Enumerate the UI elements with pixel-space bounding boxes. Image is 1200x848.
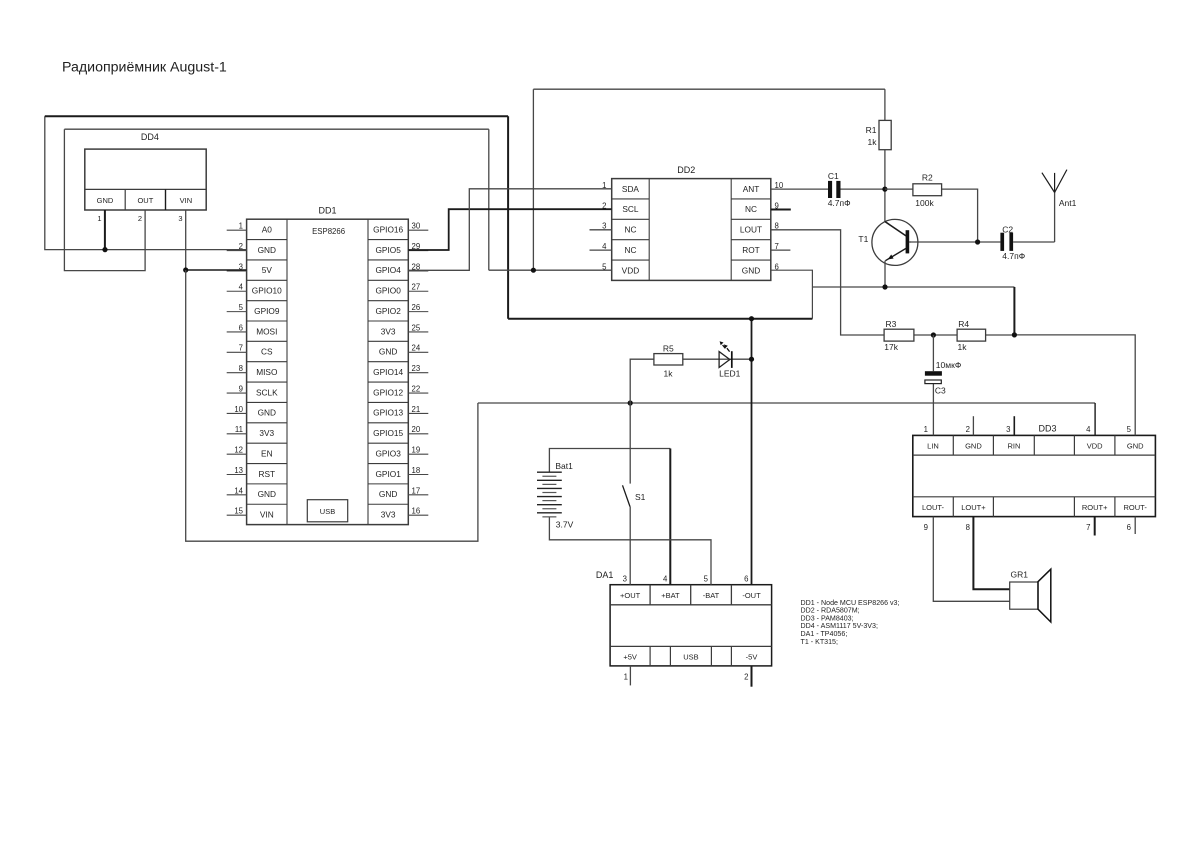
DD1 pin 30 (GPIO16) stub: [408, 229, 428, 231]
svg-text:25: 25: [412, 323, 421, 332]
DA1 pin 2 stub: [751, 666, 753, 687]
svg-text:T1: T1: [858, 234, 868, 244]
DD1 pin 10 (GND) stub: [227, 412, 247, 414]
microcontroller DD1 (NodeMCU ESP8266): [227, 206, 429, 525]
svg-text:DA1 - TP4056;: DA1 - TP4056;: [801, 630, 848, 638]
svg-text:+5V: +5V: [623, 652, 637, 661]
wire: R4 right to GND drop junction: [986, 334, 1015, 336]
svg-text:CS: CS: [261, 347, 273, 357]
svg-text:+OUT: +OUT: [620, 591, 641, 600]
svg-text:5: 5: [1127, 425, 1132, 434]
resistor R3 17k: [884, 319, 914, 352]
regulator DD4 (ASM1117): [85, 132, 206, 223]
svg-text:GPIO4: GPIO4: [375, 265, 401, 275]
junction R2 / base wire: [975, 239, 980, 244]
svg-text:USB: USB: [320, 507, 335, 516]
wire GND: vertical drop to R4 right: [1013, 287, 1015, 335]
svg-text:17k: 17k: [884, 342, 898, 352]
wire 5V: to DD1 pin3: [186, 269, 247, 271]
DD1 pin 15 (VIN) stub: [227, 514, 247, 516]
wire: GND y=318.7 down to DA1 -OUT pin6: [751, 319, 753, 585]
svg-text:4.7пФ: 4.7пФ: [828, 198, 851, 208]
wire: DD3 pin9 LOUT- to GR1: [933, 517, 1009, 602]
svg-text:3: 3: [623, 575, 627, 584]
DD1 pin 19 (GPIO3) stub: [408, 453, 428, 455]
svg-text:DD4 - ASM1117 5V-3V3;: DD4 - ASM1117 5V-3V3;: [801, 622, 878, 630]
svg-text:Ant1: Ant1: [1059, 198, 1077, 208]
DD1 USB connector box: [307, 500, 347, 522]
DD2 pin 7 ROT stub: [771, 249, 791, 251]
wire: S1 bottom to DA1 +OUT pin3: [629, 507, 631, 585]
svg-text:MISO: MISO: [256, 367, 278, 377]
svg-text:27: 27: [412, 283, 421, 292]
wire GND: DD2 pin6 to corner and down: [771, 270, 813, 319]
svg-text:22: 22: [412, 384, 421, 393]
svg-text:VDD: VDD: [622, 265, 640, 275]
wire GND: vertical at x=508: [507, 116, 509, 318]
svg-text:GND: GND: [258, 489, 276, 499]
svg-text:DD2: DD2: [677, 165, 695, 175]
DD1 pin 13 (RST) stub: [227, 474, 247, 476]
DD1 pin 4 (GPIO10) stub: [227, 290, 247, 292]
svg-text:GND: GND: [379, 347, 397, 357]
svg-text:2: 2: [744, 673, 748, 682]
svg-text:5: 5: [704, 575, 709, 584]
svg-text:GND: GND: [379, 489, 397, 499]
svg-text:3.7V: 3.7V: [556, 520, 574, 530]
svg-text:NC: NC: [624, 245, 636, 255]
svg-text:GPIO10: GPIO10: [252, 286, 282, 296]
wire SCL: DD1 GPIO5 to DD2 SCL: [408, 209, 611, 250]
DD2 pin 4 NC stub: [590, 249, 612, 251]
svg-text:1: 1: [624, 673, 628, 682]
svg-text:DD3 - PAM8403;: DD3 - PAM8403;: [801, 614, 854, 622]
svg-text:GPIO0: GPIO0: [375, 286, 401, 296]
svg-text:GND: GND: [1127, 441, 1144, 450]
antenna Ant1: [1042, 170, 1077, 208]
svg-text:T1 - KT315;: T1 - KT315;: [801, 638, 838, 646]
svg-text:Радиоприёмник August-1: Радиоприёмник August-1: [62, 59, 227, 75]
DD2 pin 9 NC stub: [771, 208, 791, 210]
svg-text:6: 6: [1127, 523, 1131, 532]
wire 3V3: inner top horizontal: [64, 128, 488, 130]
svg-text:DD1: DD1: [318, 206, 336, 216]
svg-text:OUT: OUT: [137, 196, 153, 205]
wire 5V: down into DD3 pin4: [1094, 403, 1096, 435]
svg-text:DD1 - Node MCU ESP8266 v3;: DD1 - Node MCU ESP8266 v3;: [801, 599, 900, 607]
junction R4 right / GND drop: [1012, 332, 1017, 337]
svg-text:VDD: VDD: [1087, 441, 1103, 450]
DD1 pin 9 (SCLK) stub: [227, 392, 247, 394]
svg-text:7: 7: [1086, 523, 1090, 532]
wire: Bat1 plus up and right: [549, 449, 670, 473]
svg-text:RST: RST: [258, 469, 275, 479]
DD1 pin 14 (GND) stub: [227, 494, 247, 496]
wire GND: outer top horizontal: [45, 115, 508, 117]
svg-text:10мкФ: 10мкФ: [936, 360, 961, 370]
wire 3V3: vertical at x=488.8: [488, 129, 490, 270]
svg-text:A0: A0: [262, 224, 273, 234]
svg-text:1: 1: [924, 425, 928, 434]
svg-text:ROUT+: ROUT+: [1082, 503, 1108, 512]
svg-text:ANT: ANT: [743, 184, 760, 194]
svg-text:GPIO1: GPIO1: [375, 469, 401, 479]
wire 5V: long horizontal y=403 to DD3 VDD: [478, 402, 1095, 404]
svg-text:GND: GND: [965, 441, 982, 450]
svg-text:GND: GND: [258, 245, 276, 255]
DD1 pin 29 (GPIO5) stub: [408, 250, 428, 252]
DD1 pin 1 (A0) stub: [227, 229, 247, 231]
svg-text:4.7пФ: 4.7пФ: [1002, 251, 1025, 261]
wire: R1 bottom to T1 collector: [884, 150, 886, 222]
charger DA1 (TP4056): [596, 570, 772, 682]
DD3 pin 6 stub: [1134, 517, 1136, 534]
svg-text:1k: 1k: [664, 368, 674, 378]
svg-text:NC: NC: [745, 204, 757, 214]
svg-text:3: 3: [178, 214, 182, 223]
svg-text:ESP8266: ESP8266: [312, 227, 345, 236]
svg-text:GPIO2: GPIO2: [375, 306, 401, 316]
svg-text:GPIO15: GPIO15: [373, 428, 403, 438]
svg-text:GR1: GR1: [1011, 569, 1029, 579]
svg-text:VIN: VIN: [260, 510, 274, 520]
wire: C2 right to antenna drop: [1013, 241, 1055, 243]
svg-text:17: 17: [412, 486, 421, 495]
svg-text:2: 2: [966, 425, 970, 434]
svg-text:-5V: -5V: [746, 652, 758, 661]
svg-text:5: 5: [239, 303, 244, 312]
svg-text:DD2 - RDA5807M;: DD2 - RDA5807M;: [801, 607, 860, 615]
component list text: [801, 599, 900, 646]
wire: R2 right then down to base rail: [942, 189, 978, 242]
radio IC DD2 (RDA5807M): [590, 165, 791, 280]
svg-text:4: 4: [663, 575, 668, 584]
wire GND: DD4 pin1 stub down: [104, 210, 106, 250]
capacitor C3 10uF electrolytic: [925, 360, 961, 395]
DD1 pin 6 (MOSI) stub: [227, 331, 247, 333]
svg-text:+BAT: +BAT: [661, 591, 680, 600]
capacitor C2 4.7pF: [1000, 224, 1025, 260]
svg-text:GPIO13: GPIO13: [373, 408, 403, 418]
junction DD4 GND / GND rail: [102, 247, 107, 252]
svg-text:Bat1: Bat1: [555, 461, 573, 471]
svg-text:1k: 1k: [958, 342, 968, 352]
svg-text:14: 14: [234, 486, 243, 495]
svg-text:23: 23: [412, 364, 421, 373]
svg-text:11: 11: [235, 425, 243, 434]
svg-text:3V3: 3V3: [259, 428, 274, 438]
DD1 pin 12 (EN) stub: [227, 453, 247, 455]
svg-text:1k: 1k: [868, 137, 878, 147]
svg-text:C1: C1: [828, 171, 839, 181]
svg-text:9: 9: [239, 384, 243, 393]
DD1 pin 20 (GPIO15) stub: [408, 433, 428, 435]
svg-text:19: 19: [412, 446, 421, 455]
svg-text:8: 8: [239, 364, 243, 373]
svg-text:6: 6: [744, 575, 748, 584]
wire: down to DA1 +BAT pin4: [669, 449, 671, 585]
junction T1 emitter / GND rail: [882, 284, 887, 289]
DD1 pin 28 (GPIO4) stub: [408, 270, 428, 272]
DD1 pin 21 (GPIO13) stub: [408, 412, 428, 414]
wire: C3 bottom lead to DD3 pin1: [932, 384, 934, 436]
resistor R5 1k: [654, 344, 683, 379]
svg-text:9: 9: [924, 523, 928, 532]
resistor R4 1k: [957, 319, 986, 352]
svg-text:10: 10: [234, 405, 243, 414]
capacitor C1 4.7pF: [828, 171, 851, 208]
wire 3V3: DD4 OUT pin down-left-up: [64, 129, 145, 270]
resistor R1 1k: [866, 120, 892, 149]
svg-text:13: 13: [234, 466, 243, 475]
DD1 pin 18 (GPIO1) stub: [408, 474, 428, 476]
svg-text:LED1: LED1: [719, 369, 741, 379]
wire: 5V junction down to S1: [629, 403, 631, 484]
audio amplifier DD3 (PAM8403): [913, 423, 1156, 532]
svg-text:24: 24: [412, 344, 421, 353]
svg-text:3: 3: [1006, 425, 1010, 434]
wire 3V3: top horizontal y=89.2 to R1: [533, 88, 885, 90]
wire GND: R4 right to DD3 pin5: [1014, 335, 1135, 436]
wire 3V3: down to R1 top: [884, 89, 886, 120]
wire: Bat1 minus to DA1 -BAT pin5: [549, 517, 711, 585]
DD1 pin 11 (3V3) stub: [227, 433, 247, 435]
svg-text:S1: S1: [635, 492, 646, 502]
DD1 pin 26 (GPIO2) stub: [408, 311, 428, 313]
svg-text:SCLK: SCLK: [256, 387, 278, 397]
wire: R5 right to LED1 anode: [683, 358, 719, 360]
svg-text:SDA: SDA: [622, 184, 640, 194]
svg-text:7: 7: [239, 344, 243, 353]
junction DD4 VIN / DD1 5V: [183, 267, 188, 272]
svg-text:-BAT: -BAT: [703, 591, 720, 600]
wire: DD3 pin8 LOUT+ to GR1: [973, 517, 1009, 590]
DD1 pin 17 (GND) stub: [408, 494, 428, 496]
svg-text:GPIO3: GPIO3: [375, 448, 401, 458]
wire: antenna vertical: [1054, 193, 1056, 243]
svg-text:R5: R5: [663, 344, 674, 354]
svg-text:5V: 5V: [262, 265, 273, 275]
wire: T1 base to C2 left: [909, 241, 1000, 243]
junction R1 / C1 / R2 node: [882, 187, 887, 192]
svg-text:LIN: LIN: [927, 441, 939, 450]
svg-text:4: 4: [239, 283, 244, 292]
svg-text:DA1: DA1: [596, 570, 614, 580]
svg-text:NC: NC: [624, 225, 636, 235]
wire 5V: loop around DD1 left-bottom-right: [186, 270, 478, 541]
DD1 pin 27 (GPIO0) stub: [408, 290, 428, 292]
wire: LED1 cathode to -OUT drop: [732, 358, 752, 360]
svg-text:20: 20: [412, 425, 421, 434]
svg-text:26: 26: [412, 303, 421, 312]
svg-text:16: 16: [412, 507, 421, 516]
junction 3V3 branch / VDD wire: [531, 268, 536, 273]
svg-text:R4: R4: [958, 319, 969, 329]
svg-text:GND: GND: [258, 408, 276, 418]
speaker GR1: [1010, 569, 1051, 622]
transistor T1 (KT315): [858, 219, 918, 287]
svg-text:6: 6: [239, 323, 243, 332]
svg-text:GND: GND: [97, 196, 114, 205]
DD3 pin 2 stub: [972, 416, 974, 435]
DD1 pin 23 (GPIO14) stub: [408, 372, 428, 374]
DD1 pin 22 (GPIO12) stub: [408, 392, 428, 394]
junction GND rail / -OUT drop: [749, 316, 754, 321]
wire: R5 left corner down to 5V junction: [630, 359, 654, 403]
svg-text:1: 1: [97, 214, 101, 223]
DD3 pin 3 stub: [1013, 416, 1015, 435]
wire 5V: DD4 VIN pin down: [185, 210, 187, 270]
DD1 pin 25 (3V3) stub: [408, 331, 428, 333]
wire 3V3: to DD2 VDD pin5: [489, 269, 612, 271]
svg-text:3V3: 3V3: [381, 326, 396, 336]
svg-text:MOSI: MOSI: [256, 326, 277, 336]
junction LED1 cathode / -OUT drop: [749, 357, 754, 362]
svg-text:DD3: DD3: [1038, 423, 1056, 433]
DD1 pin 3 (5V) stub: [227, 270, 247, 272]
wire GND: horizontal y=318.7 to DD2 GND drop: [508, 318, 812, 320]
svg-text:SCL: SCL: [622, 204, 639, 214]
wire LOUT: DD2 pin8 to R3: [771, 230, 884, 335]
LED LED1: [719, 341, 741, 378]
svg-text:RIN: RIN: [1007, 441, 1020, 450]
DD1 pin 16 (3V3) stub: [408, 514, 428, 516]
DD1 pin 2 (GND) stub: [227, 250, 247, 252]
svg-text:GPIO12: GPIO12: [373, 387, 403, 397]
svg-text:R3: R3: [885, 319, 896, 329]
wire ANT: DD2 pin10 to C1: [771, 188, 828, 190]
svg-text:USB: USB: [683, 652, 698, 661]
switch S1: [623, 485, 646, 506]
DD2 pin 3 NC stub: [590, 229, 612, 231]
svg-text:DD4: DD4: [141, 132, 159, 142]
svg-text:C2: C2: [1002, 224, 1013, 234]
svg-text:ROUT-: ROUT-: [1124, 503, 1148, 512]
wire: C1 right to R1 bottom junction: [841, 188, 885, 190]
wire: junction to R2 left: [885, 188, 913, 190]
svg-text:GPIO14: GPIO14: [373, 367, 403, 377]
wire GND: DD1 pin2 left to outer loop corner: [45, 116, 247, 249]
svg-text:-OUT: -OUT: [742, 591, 761, 600]
DD1 pin 8 (MISO) stub: [227, 372, 247, 374]
svg-text:18: 18: [412, 466, 421, 475]
DD1 pin 7 (CS) stub: [227, 351, 247, 353]
junction R3 / R4 / C3 node: [931, 332, 936, 337]
svg-text:C3: C3: [935, 386, 946, 396]
svg-text:GPIO5: GPIO5: [375, 245, 401, 255]
svg-text:GPIO16: GPIO16: [373, 224, 403, 234]
svg-text:EN: EN: [261, 448, 273, 458]
svg-text:LOUT-: LOUT-: [922, 503, 945, 512]
svg-text:4: 4: [1086, 425, 1091, 434]
junction 5V rail / S1 branch: [628, 400, 633, 405]
svg-text:1: 1: [239, 222, 243, 231]
svg-text:2: 2: [138, 214, 142, 223]
wire: C3 top lead: [932, 335, 934, 371]
wire GND: horizontal y=287 emitter rail: [812, 286, 1014, 288]
svg-text:3V3: 3V3: [381, 510, 396, 520]
svg-text:LOUT: LOUT: [740, 225, 762, 235]
svg-text:30: 30: [412, 222, 421, 231]
svg-text:GND: GND: [742, 265, 760, 275]
DD1 pin 24 (GND) stub: [408, 351, 428, 353]
svg-text:VIN: VIN: [180, 196, 193, 205]
svg-text:15: 15: [234, 507, 243, 516]
svg-text:GPIO9: GPIO9: [254, 306, 280, 316]
DD1 pin 5 (GPIO9) stub: [227, 311, 247, 313]
battery Bat1 3.7V: [537, 461, 574, 530]
svg-text:ROT: ROT: [742, 245, 760, 255]
svg-text:8: 8: [966, 523, 970, 532]
DA1 pin 1 stub: [629, 666, 631, 686]
svg-text:R1: R1: [866, 125, 877, 135]
wire SDA: DD1 GPIO4 to DD2 SDA: [408, 189, 611, 270]
svg-text:100k: 100k: [915, 198, 934, 208]
svg-text:LOUT+: LOUT+: [961, 503, 986, 512]
resistor R2 100k: [913, 173, 942, 208]
wire: R3 right to R4 left: [914, 334, 957, 336]
svg-text:21: 21: [412, 405, 421, 414]
svg-text:12: 12: [234, 446, 243, 455]
DD3 pin 7 stub: [1094, 517, 1096, 536]
svg-text:R2: R2: [922, 173, 933, 183]
wire 3V3: branch up at x=533.4: [532, 89, 534, 270]
